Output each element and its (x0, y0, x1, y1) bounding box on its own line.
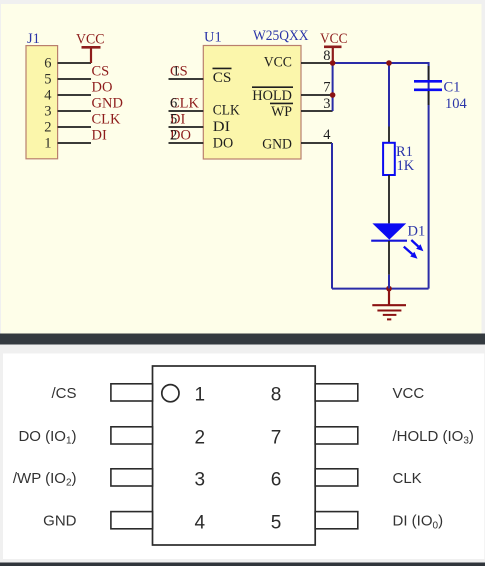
U1 pin 8 wire (VCC) (301, 62, 333, 64)
U1 pin 6 wire (CLK) (169, 110, 204, 112)
LED D1 (371, 223, 407, 288)
pad pin 4 (111, 512, 153, 529)
U1 pin 3 wire (WP) (301, 110, 333, 112)
svg-text:2: 2 (170, 128, 177, 144)
svg-text:3: 3 (323, 96, 330, 112)
ground symbol (372, 289, 406, 320)
DIP package body (153, 366, 316, 545)
J1 pin 6 wire (58, 62, 91, 64)
U1 pin 5 wire (DI) (169, 126, 204, 128)
svg-text:6: 6 (271, 470, 282, 491)
svg-text:/HOLD (IO3): /HOLD (IO3) (393, 428, 474, 447)
svg-text:4: 4 (195, 512, 206, 533)
junction at ground (386, 286, 392, 292)
J1 pin 2 wire (58, 126, 91, 128)
svg-text:VCC: VCC (76, 32, 105, 48)
capacitor C1 (414, 66, 442, 105)
svg-text:8: 8 (271, 385, 282, 406)
svg-text:5: 5 (170, 112, 177, 128)
junction at pin7 (330, 92, 336, 98)
U1 pin name CS with overbar (213, 68, 232, 86)
bottom bar (0, 563, 485, 566)
svg-text:DO: DO (92, 80, 113, 96)
wire bottom horizontal (332, 288, 429, 290)
pad pin 7 (315, 427, 358, 444)
svg-text:5: 5 (271, 512, 282, 533)
svg-text:4: 4 (323, 127, 331, 143)
junction at pin8/power (330, 60, 336, 66)
IC U1 body (203, 46, 301, 160)
U1 pin name HOLD with overbar (252, 87, 293, 104)
svg-text:CS: CS (213, 70, 232, 86)
svg-text:DI: DI (92, 128, 107, 144)
U1 pin 4 wire (GND) (301, 142, 332, 144)
U1 pin 1 wire (CS) (169, 78, 204, 80)
svg-text:7: 7 (323, 80, 330, 96)
junction at R1 branch (386, 60, 392, 66)
U1 pin 7 wire (HOLD) (301, 94, 333, 96)
wire VCC to R1 (388, 63, 390, 127)
J1 pin 5 wire (58, 78, 91, 80)
J1 pin 3 wire (58, 110, 91, 112)
svg-text:5: 5 (44, 72, 51, 88)
svg-text:CLK: CLK (92, 112, 122, 128)
pad pin 5 (315, 512, 358, 529)
J1 pin 1 wire (58, 142, 91, 144)
U1 pin 2 wire (DO) (169, 142, 204, 144)
svg-text:W25QXX: W25QXX (253, 28, 309, 44)
svg-text:4: 4 (44, 88, 52, 104)
svg-text:HOLD: HOLD (252, 88, 292, 104)
power port VCC at J1 (82, 47, 101, 63)
svg-text:GND: GND (92, 96, 123, 112)
svg-text:CLK: CLK (213, 103, 240, 119)
LED light arrows (404, 240, 424, 259)
power port VCC at U1 (324, 47, 342, 63)
svg-text:3: 3 (44, 104, 51, 120)
pad pin 8 (315, 384, 358, 401)
divider bar (0, 334, 485, 345)
U1 pin name WP with overbar (270, 103, 293, 120)
svg-text:DO: DO (213, 135, 234, 151)
pin 1 indicator circle (162, 385, 179, 402)
svg-text:6: 6 (170, 96, 177, 112)
svg-text:/CS: /CS (51, 385, 76, 402)
svg-text:1: 1 (195, 385, 206, 406)
svg-text:CS: CS (92, 64, 110, 80)
pad pin 6 (315, 469, 358, 486)
svg-text:VCC: VCC (264, 54, 292, 70)
pad pin 1 (111, 384, 153, 401)
pad pin 2 (111, 427, 153, 444)
svg-text:2: 2 (195, 428, 206, 449)
schematic sheet background (1, 4, 482, 334)
svg-text:1: 1 (173, 64, 180, 80)
svg-text:J1: J1 (27, 31, 40, 47)
wire GND net vertical (331, 143, 333, 289)
svg-text:D1: D1 (408, 224, 426, 240)
svg-text:WP: WP (271, 104, 292, 120)
svg-text:GND: GND (43, 513, 77, 530)
svg-text:6: 6 (44, 56, 51, 72)
svg-text:1: 1 (44, 136, 51, 152)
svg-text:3: 3 (195, 470, 206, 491)
svg-text:C1: C1 (444, 80, 461, 96)
pad pin 3 (111, 469, 153, 486)
wire HOLD/WP tie (332, 63, 334, 111)
J1 pin 4 wire (58, 94, 91, 96)
pinout panel background (3, 354, 484, 560)
wire VCC horizontal (333, 63, 429, 289)
svg-text:104: 104 (445, 96, 468, 112)
svg-text:GND: GND (262, 136, 292, 152)
svg-text:VCC: VCC (393, 385, 425, 402)
svg-text:8: 8 (323, 48, 330, 64)
resistor R1 (383, 127, 395, 224)
connector J1 (26, 46, 58, 159)
svg-text:DI: DI (213, 119, 230, 135)
svg-text:U1: U1 (204, 30, 222, 46)
svg-text:CLK: CLK (393, 470, 422, 487)
svg-text:2: 2 (44, 120, 51, 136)
svg-text:VCC: VCC (320, 31, 348, 47)
svg-text:7: 7 (271, 428, 282, 449)
svg-text:1K: 1K (397, 158, 415, 174)
